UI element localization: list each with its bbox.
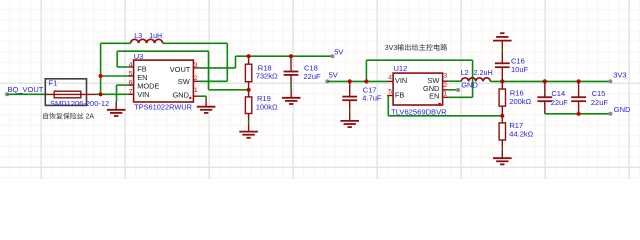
junction R18 top — [247, 54, 251, 58]
resistor R17 44.2k — [499, 116, 534, 150]
wire U3 GND pin to ground — [199, 96, 206, 98]
ground (C17) — [349, 113, 351, 121]
junction EN node — [99, 74, 103, 78]
svg-text:1: 1 — [443, 91, 447, 98]
fuse F1 SMD1206-200-12 — [45, 78, 109, 108]
net flag BQ_VOUT — [5, 85, 44, 96]
capacitor C15 22uF — [571, 81, 608, 113]
svg-text:3: 3 — [443, 73, 447, 80]
svg-text:L2: L2 — [461, 68, 469, 77]
svg-text:SMD1206-200-12: SMD1206-200-12 — [50, 99, 109, 108]
wire BQ_VOUT to F1 — [7, 93, 46, 95]
junction C16/R16 column — [500, 79, 504, 83]
svg-text:GND: GND — [461, 81, 478, 90]
junction VIN node — [99, 92, 103, 96]
ground (R17) — [501, 150, 503, 158]
svg-text:FB: FB — [395, 91, 405, 100]
svg-text:1uH: 1uH — [149, 33, 162, 40]
wire 5V to U12 VIN — [327, 80, 387, 82]
svg-text:2.2uH: 2.2uH — [474, 68, 493, 77]
net flag GND (output) — [608, 105, 631, 116]
wire VOUT to 5V rail — [200, 56, 333, 68]
capacitor C14 22uF — [537, 81, 568, 113]
svg-text:L3: L3 — [134, 33, 142, 40]
wire EN to VIN node — [101, 75, 128, 77]
svg-text:4: 4 — [129, 61, 133, 68]
svg-text:BQ_VOUT: BQ_VOUT — [8, 85, 44, 94]
resistor R19 100k — [245, 90, 278, 124]
svg-text:GND: GND — [614, 105, 631, 114]
net flag 3V3 — [608, 71, 626, 84]
svg-text:5V: 5V — [329, 70, 338, 79]
svg-text:4.7uF: 4.7uF — [362, 94, 382, 103]
resistor R16 200k — [499, 81, 531, 115]
title 3V3输出给主控电路 — [385, 43, 448, 52]
junction C17 — [348, 79, 352, 83]
svg-text:5: 5 — [388, 89, 392, 96]
svg-text:2A: 2A — [86, 114, 95, 121]
svg-text:3V3: 3V3 — [613, 71, 626, 80]
svg-text:SW: SW — [178, 77, 190, 86]
wire U12 FB net — [388, 96, 502, 116]
wire L3 to SW — [163, 43, 228, 81]
capacitor C18 22uF — [284, 56, 321, 89]
svg-text:EN: EN — [429, 91, 439, 100]
svg-text:U12: U12 — [394, 64, 408, 73]
svg-text:4: 4 — [388, 74, 392, 81]
junction EN rail — [364, 79, 368, 83]
svg-text:5: 5 — [129, 70, 133, 77]
svg-text:2: 2 — [194, 75, 198, 82]
svg-text:22uF: 22uF — [591, 98, 609, 107]
ground (MODE) — [115, 102, 117, 110]
wire top rail to L3 — [101, 42, 131, 44]
junction C15 top — [577, 79, 581, 83]
IC U3 TPS61022RWUR — [128, 52, 200, 111]
svg-text:1: 1 — [194, 87, 198, 94]
junction R16/R17 FB node — [500, 114, 504, 118]
wire L2 to 3V3 rail — [490, 80, 610, 82]
annotation 自恢复保险丝 2A — [43, 113, 94, 121]
svg-text:2: 2 — [443, 82, 447, 89]
net flag GND (U12) — [448, 81, 478, 92]
svg-text:C15: C15 — [592, 89, 606, 98]
ground (R19) — [248, 123, 250, 131]
inductor L2 2.2uH — [461, 68, 493, 81]
junction FB divider — [247, 88, 251, 92]
svg-text:GND: GND — [173, 91, 189, 100]
ground (U3 GND) — [205, 98, 207, 106]
net flag 5V (buck input) — [325, 70, 337, 83]
net flag 5V (boost output) — [331, 48, 344, 59]
svg-text:F1: F1 — [49, 78, 58, 87]
svg-text:U3: U3 — [134, 52, 144, 61]
wire MODE to ground — [117, 85, 128, 101]
svg-text:5V: 5V — [334, 48, 343, 57]
junction C14 top — [543, 79, 547, 83]
svg-text:3V3: 3V3 — [385, 43, 398, 52]
junction C15 bottom — [577, 112, 581, 116]
svg-text:44.2kΩ: 44.2kΩ — [509, 129, 533, 138]
svg-text:VIN: VIN — [395, 76, 407, 85]
svg-text:22uF: 22uF — [551, 98, 569, 107]
wire FB net U3 — [117, 51, 248, 90]
capacitor C17 4.7uF — [342, 81, 382, 112]
wire EN rail (VIN to EN) — [366, 60, 472, 97]
wire SW to L2 — [448, 80, 461, 82]
svg-text:732kΩ: 732kΩ — [256, 72, 278, 81]
svg-text:3: 3 — [194, 62, 198, 69]
svg-text:TPS61022RWUR: TPS61022RWUR — [134, 103, 192, 112]
svg-text:22uF: 22uF — [304, 72, 322, 81]
svg-text:VOUT: VOUT — [170, 65, 191, 74]
svg-text:6: 6 — [129, 79, 133, 86]
svg-text:7: 7 — [129, 89, 133, 96]
resistor R18 732k — [245, 56, 278, 90]
capacitor C16 10uF — [495, 49, 529, 82]
svg-text:VIN: VIN — [137, 90, 149, 99]
wire GND rail — [545, 113, 611, 115]
wire VIN node vertical — [100, 43, 102, 94]
svg-text:100kΩ: 100kΩ — [256, 103, 278, 112]
IC U12 TLV62569DBVR — [387, 64, 448, 117]
inductor L3 1uH — [131, 33, 163, 43]
svg-text:200kΩ: 200kΩ — [509, 97, 531, 106]
svg-text:10uF: 10uF — [511, 65, 529, 74]
ground (C18) — [290, 90, 292, 98]
junction C18 top — [289, 54, 293, 58]
wire F1 to U3 VIN — [95, 93, 128, 95]
ground (C16, inverted) — [501, 41, 503, 49]
svg-text:C14: C14 — [551, 89, 565, 98]
